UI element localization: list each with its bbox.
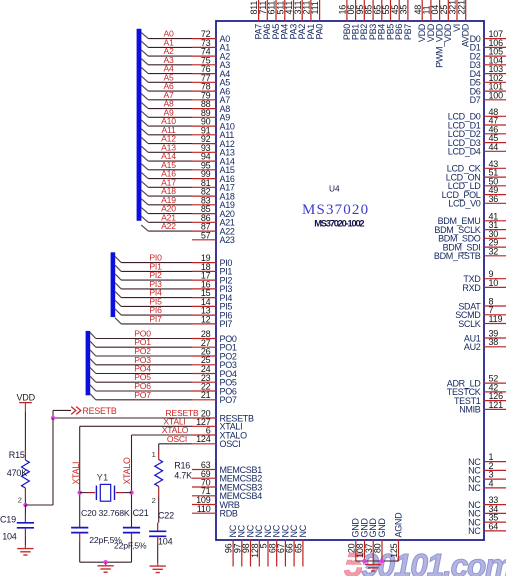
- svg-text:22pF,5%: 22pF,5%: [114, 541, 147, 551]
- pin 94 A14: [148, 151, 235, 166]
- bus entry PI4: [115, 291, 121, 297]
- wire RESETB to RC node: [25, 504, 53, 506]
- bus entry A18: [141, 190, 148, 196]
- svg-text:PI7: PI7: [220, 319, 233, 329]
- svg-text:PB7: PB7: [403, 24, 413, 40]
- junction XTALO/crystal: [129, 490, 133, 494]
- wire R16 to C22: [158, 497, 160, 523]
- bus PI[0..7]: [111, 252, 116, 317]
- pin 4 NC: [468, 478, 506, 493]
- pin 41 BDM_EMU: [438, 211, 506, 226]
- pin 66 NC: [285, 524, 299, 566]
- svg-text:PA0: PA0: [315, 24, 325, 40]
- pin 58 PB3: [364, 0, 378, 40]
- pin 10 RXD: [462, 278, 506, 293]
- lead C22 pin2: [157, 536, 159, 545]
- svg-text:119: 119: [489, 314, 503, 324]
- pin 74 A2: [148, 46, 230, 61]
- bus entry A12: [141, 137, 148, 143]
- pin 11 VDD: [422, 0, 436, 42]
- pin 126 TEST1: [454, 391, 506, 406]
- pin 56 PB4: [372, 0, 386, 40]
- svg-text:65: 65: [294, 543, 304, 553]
- svg-text:U4: U4: [329, 184, 340, 194]
- junction R15/C19/RESETB node: [23, 503, 27, 507]
- crystal Y1 32.768K: [80, 473, 132, 501]
- lead C22 pin1: [157, 523, 159, 532]
- pin 21 PO7: [96, 390, 237, 405]
- pin 40 PWM_VDD: [430, 0, 444, 68]
- pin 112 PA1: [302, 0, 316, 39]
- pin 110 RDB: [192, 504, 238, 519]
- lead R15 pin1: [24, 450, 26, 461]
- pin 114 PA3: [284, 0, 298, 39]
- pin 20 RESETB: [53, 408, 254, 423]
- svg-text:35: 35: [399, 5, 409, 15]
- bus entry PI6: [115, 309, 121, 315]
- svg-text:111: 111: [310, 1, 320, 14]
- svg-text:125: 125: [389, 543, 399, 558]
- svg-text:AU2: AU2: [464, 342, 481, 352]
- svg-text:GND: GND: [377, 518, 387, 538]
- bus entry A21: [141, 216, 148, 222]
- svg-text:D7: D7: [470, 95, 481, 105]
- bus entry A20: [141, 207, 148, 213]
- pin 104 D3: [470, 55, 506, 70]
- svg-text:104: 104: [2, 531, 17, 541]
- pin 87 A22: [148, 221, 235, 236]
- pin 91 A11: [148, 125, 234, 140]
- svg-text:100: 100: [489, 90, 504, 100]
- pin 14 PI5: [121, 296, 232, 311]
- bus entry A15: [141, 164, 148, 170]
- svg-text:PO7: PO7: [134, 390, 151, 400]
- svg-text:RXD: RXD: [462, 283, 481, 293]
- svg-text:44: 44: [489, 142, 499, 152]
- pin 42 TESTCK: [447, 382, 506, 397]
- pin 28 PO0: [96, 329, 237, 344]
- wire RESETB connector: [53, 409, 71, 411]
- pin 78 A6: [148, 81, 230, 96]
- svg-text:2: 2: [18, 496, 22, 505]
- pin 43 LCD_CK: [447, 159, 506, 174]
- pin 6 XTALO: [132, 425, 248, 440]
- bus entry PO6: [90, 385, 96, 391]
- svg-text:21: 21: [201, 390, 211, 400]
- bus PO[0..7]: [86, 331, 91, 395]
- svg-text:NMIB: NMIB: [459, 405, 481, 415]
- pin 119 SCLK: [458, 314, 506, 329]
- svg-text:RESETB: RESETB: [83, 406, 117, 416]
- pin 18 PI1: [121, 261, 232, 276]
- wire C19 to ground: [24, 537, 26, 546]
- svg-text:4.7K: 4.7K: [174, 470, 192, 480]
- pin 51 LCD_ON: [446, 168, 506, 183]
- pin 73 A1: [148, 37, 230, 52]
- IC U4 MS37020 body: [216, 21, 484, 540]
- pin 118 PA7: [249, 0, 263, 39]
- pin 86 A21: [148, 212, 235, 227]
- pin 33 NC: [468, 495, 506, 510]
- pin 16 PI3: [121, 279, 232, 294]
- bus entry PI7: [115, 318, 121, 324]
- power symbol VDD: [17, 393, 36, 413]
- wire C22 to ground: [157, 545, 159, 563]
- pin 92 A12: [148, 134, 235, 149]
- capacitor C19 104: [0, 514, 34, 541]
- lead R16 pin2: [158, 487, 160, 498]
- off-sheet connector RESETB: [71, 406, 117, 416]
- svg-text:221: 221: [456, 0, 466, 15]
- wire crystal ground rail: [80, 561, 132, 563]
- pin 32 BDM_RSTB: [434, 246, 506, 261]
- bus entry A10: [141, 120, 148, 126]
- ground symbol (chip GND): [365, 561, 381, 571]
- pin 88 A8: [148, 99, 230, 114]
- pin 29 BDM_SDI: [443, 238, 506, 253]
- capacitor C20 22pF: [71, 508, 130, 545]
- bus entry PI3: [115, 283, 121, 289]
- wire C21 to ground rail: [131, 542, 133, 563]
- svg-text:PO7: PO7: [220, 395, 237, 405]
- pin 7 SCMD: [455, 305, 506, 320]
- lead C21 pin2: [131, 533, 133, 542]
- pin 44 LCD_D4: [448, 142, 506, 157]
- svg-text:SCLK: SCLK: [458, 319, 481, 329]
- svg-text:LCD_V0: LCD_V0: [448, 199, 481, 209]
- pin 67 NC: [276, 524, 290, 566]
- junction GND: [362, 559, 366, 563]
- svg-text:Y1: Y1: [97, 473, 109, 483]
- pin 15 PI4: [121, 288, 232, 303]
- svg-text:1: 1: [152, 450, 156, 459]
- pin 19 PI0: [121, 253, 232, 268]
- pin 98 NC: [241, 524, 255, 566]
- wire VDD to R15: [24, 412, 26, 450]
- bus entry A22: [141, 225, 148, 231]
- bus entry PO5: [90, 376, 96, 382]
- pin 96 NC: [224, 524, 238, 566]
- pin 97 NC: [232, 524, 246, 566]
- svg-text:110: 110: [197, 504, 211, 514]
- svg-text:10: 10: [489, 278, 499, 288]
- bus entry PI1: [115, 265, 121, 271]
- svg-text:XTALI: XTALI: [71, 462, 81, 485]
- svg-text:VDD: VDD: [17, 393, 36, 403]
- svg-text:C21: C21: [133, 508, 149, 518]
- pin 24 PO4: [96, 364, 237, 379]
- pin 121 NMIB: [459, 400, 506, 415]
- svg-text:64: 64: [489, 521, 499, 531]
- pin 102 D5: [470, 73, 506, 88]
- svg-text:A23: A23: [220, 235, 235, 245]
- pin 116 PA5: [267, 0, 281, 39]
- pin 65 NC: [294, 524, 308, 566]
- pin 80 GND: [373, 518, 387, 561]
- pin 122 AVDD: [456, 0, 470, 47]
- svg-text:AVDD: AVDD: [461, 23, 471, 47]
- bus entry PI5: [115, 300, 121, 306]
- pin 100 D7: [470, 90, 506, 105]
- svg-text:C19: C19: [0, 514, 16, 524]
- pin 109 WRB: [192, 495, 240, 510]
- pin 115 PA4: [275, 0, 289, 39]
- pin 69 MEMCSB2: [192, 469, 262, 484]
- svg-text:MS37020: MS37020: [302, 202, 369, 218]
- pin 27 PO1: [96, 337, 237, 352]
- pin 81 A17: [148, 177, 235, 192]
- pin 64 NC: [468, 521, 506, 536]
- pin 47 LCD_D1: [448, 116, 506, 131]
- pin 75 A3: [148, 55, 230, 70]
- svg-text:32: 32: [489, 246, 499, 256]
- bus entry PO0: [90, 332, 96, 338]
- svg-text:4: 4: [489, 478, 494, 488]
- pin 89 A9: [148, 107, 230, 122]
- pin 22 PO6: [96, 381, 237, 396]
- pin 55 PB5: [381, 0, 395, 40]
- wire XTALI vertical: [79, 426, 81, 527]
- svg-text:OSCI: OSCI: [220, 439, 241, 449]
- bus entry A9: [141, 111, 148, 117]
- pin 1 NC: [468, 452, 506, 467]
- resistor R15 470K: [7, 450, 30, 505]
- pin 77 A5: [148, 72, 230, 87]
- pin 48 LCD_D0: [448, 107, 506, 122]
- svg-text:MS37020-1002: MS37020-1002: [314, 218, 364, 228]
- pin 106 D1: [470, 38, 506, 53]
- pin 3 NC: [468, 470, 506, 485]
- lead C20 pin2: [79, 533, 81, 542]
- bus entry A14: [141, 155, 148, 161]
- pin 108 GND: [355, 518, 369, 561]
- pin 95 A15: [148, 160, 235, 175]
- bus entry PO3: [90, 359, 96, 365]
- pin 5 NC: [259, 524, 273, 566]
- pin 30 BDM_SDO: [438, 229, 506, 244]
- bus entry PO2: [90, 350, 96, 356]
- resistor R16 4.7K: [152, 450, 193, 505]
- svg-text:OSCI: OSCI: [167, 434, 187, 444]
- pin 76 A4: [148, 64, 230, 79]
- svg-text:57: 57: [201, 230, 211, 240]
- pin 90 A10: [148, 116, 235, 131]
- pin 45 LCD_D3: [448, 133, 506, 148]
- ground symbol (C22): [150, 563, 166, 573]
- pin 26 PO2: [96, 346, 237, 361]
- pin 117 PA6: [258, 0, 272, 39]
- pin 54 PB6: [390, 0, 404, 40]
- lead R16 pin1: [158, 450, 160, 460]
- svg-text:80: 80: [373, 543, 383, 553]
- svg-text:BDM_RSTB: BDM_RSTB: [434, 251, 481, 261]
- pin 13 PI6: [121, 305, 232, 320]
- pin 35 NC: [468, 513, 506, 528]
- bus entry A13: [141, 146, 148, 152]
- pin 52 ADR_LD: [447, 374, 506, 389]
- pin 79 A7: [148, 90, 230, 105]
- bus entry A6: [141, 85, 148, 91]
- junction XTALI/crystal: [78, 490, 82, 494]
- svg-text:124: 124: [196, 434, 211, 444]
- wire GND bracket: [356, 560, 399, 562]
- svg-text:AGND: AGND: [393, 512, 403, 538]
- lead R15 pin2: [24, 488, 26, 499]
- bus entry PO7: [90, 394, 96, 400]
- pin 127 XTALI: [80, 416, 243, 431]
- svg-text:NC: NC: [468, 526, 481, 536]
- ground symbol (C19): [17, 545, 33, 555]
- svg-text:PI7: PI7: [149, 314, 162, 324]
- pin 53 PB7: [399, 0, 413, 40]
- wire C20 to ground rail: [79, 542, 81, 563]
- pin 49 LCD_POL: [442, 185, 506, 200]
- pin 61 PB0: [338, 0, 352, 40]
- pin 71 MEMCSB4: [192, 486, 262, 501]
- lead C19 pin2: [24, 528, 26, 537]
- bus entry A8: [141, 102, 148, 108]
- bus entry A11: [141, 129, 148, 135]
- junction RESETB: [51, 416, 55, 420]
- svg-text:XTALO: XTALO: [122, 457, 132, 485]
- svg-text:2: 2: [152, 496, 156, 505]
- bus entry A3: [141, 59, 148, 65]
- pin 128 NC: [250, 524, 264, 566]
- pin 23 PO5: [96, 372, 237, 387]
- svg-text:R15: R15: [9, 450, 25, 460]
- bus entry A7: [141, 94, 148, 100]
- watermark 590101.com logo: [339, 547, 506, 576]
- pin 103 D4: [470, 64, 506, 79]
- bus entry A19: [141, 199, 148, 205]
- pin 34 NC: [468, 504, 506, 519]
- pin 59 PB2: [355, 0, 369, 40]
- pin 38 AU2: [464, 337, 506, 352]
- svg-text:12: 12: [201, 314, 211, 324]
- bus entry A1: [141, 41, 148, 47]
- wire XTALO vertical: [131, 435, 133, 528]
- pin 36 LCD_V0: [448, 194, 506, 209]
- pin 9 TXD: [463, 269, 506, 284]
- svg-text:104: 104: [158, 537, 173, 547]
- svg-text:C20 32.768K: C20 32.768K: [81, 508, 130, 518]
- pin 20 GND: [346, 518, 360, 561]
- pin 60 PB1: [346, 0, 360, 40]
- pin 50 LCD_LD: [448, 176, 506, 191]
- pin 99 A16: [148, 169, 235, 184]
- bus entry A2: [141, 50, 148, 56]
- svg-text:38: 38: [489, 337, 499, 347]
- svg-text:RDB: RDB: [220, 509, 238, 519]
- svg-text:121: 121: [489, 400, 504, 410]
- pin 125 AGND: [389, 512, 403, 561]
- svg-text:NC: NC: [298, 524, 308, 537]
- svg-text:A22: A22: [161, 221, 176, 231]
- pin 72 A0: [148, 29, 230, 44]
- pin 93 A13: [148, 142, 235, 157]
- wire RESETB vertical: [52, 410, 54, 418]
- svg-text:LCD_D4: LCD_D4: [448, 147, 481, 157]
- bus entry A16: [141, 172, 148, 178]
- bus entry PO4: [90, 367, 96, 373]
- pin 70 MEMCSB3: [192, 478, 262, 493]
- pin 31 BDM_SCLK: [434, 220, 506, 235]
- pin 12 PI7: [121, 314, 232, 329]
- svg-text:36: 36: [489, 194, 499, 204]
- pin 84 VDD: [413, 0, 427, 42]
- bus entry A5: [141, 76, 148, 82]
- wire OSCI vertical: [158, 444, 160, 450]
- junction GND: [380, 559, 384, 563]
- pin 123 VI: [448, 0, 462, 32]
- pin 85 A20: [148, 204, 235, 219]
- pin 124 OSCI: [159, 434, 241, 449]
- wire R15 to node: [24, 499, 26, 506]
- pin 8 SDAT: [458, 297, 506, 312]
- pin 63 MEMCSB1: [192, 460, 262, 475]
- wire RESETB down: [52, 418, 54, 505]
- pin 46 LCD_D2: [448, 124, 506, 139]
- pin 57 A23: [192, 230, 235, 245]
- bus entry PO1: [90, 341, 96, 347]
- pin 52 VDD: [439, 0, 453, 42]
- pin 113 PA2: [293, 0, 307, 39]
- lead C19 pin1: [24, 515, 26, 523]
- bus entry PI2: [115, 274, 121, 280]
- pin 107 D0: [470, 29, 506, 44]
- bus entry A17: [141, 181, 148, 187]
- svg-text:NC: NC: [468, 483, 481, 493]
- pin 37 GND: [364, 518, 378, 561]
- pin 39 AU1: [464, 329, 506, 344]
- bus entry A4: [141, 67, 148, 73]
- capacitor C22 104: [149, 511, 174, 547]
- address bus A[0..22]: [137, 29, 142, 221]
- pin 68 NC: [267, 524, 281, 566]
- capacitor C21 22pF: [114, 508, 149, 550]
- svg-text:R16: R16: [174, 461, 190, 471]
- pin 17 PI2: [121, 270, 232, 285]
- bus entry PI0: [115, 256, 121, 262]
- svg-text:C22: C22: [158, 511, 174, 521]
- ground symbol (crystal): [97, 562, 113, 572]
- pin 82 A18: [148, 186, 235, 201]
- junction ground rail: [103, 560, 107, 564]
- pin 25 PO3: [96, 355, 237, 370]
- pin 2 NC: [468, 461, 506, 476]
- bus entry A0: [141, 32, 148, 38]
- pin 83 A19: [148, 195, 235, 210]
- svg-text:470K: 470K: [7, 468, 27, 478]
- pin 111 PA0: [310, 0, 324, 39]
- wire node to C19: [24, 505, 26, 515]
- pin 101 D6: [470, 82, 506, 97]
- pin 105 D2: [470, 47, 506, 62]
